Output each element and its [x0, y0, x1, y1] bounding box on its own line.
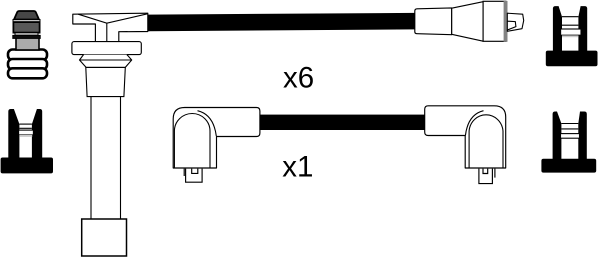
x6 lead: right connector body [483, 1, 507, 42]
spark plug terminal nut: gray cylinder [16, 38, 39, 51]
spark plug terminal nut (top-left): ribbed base [8, 50, 47, 79]
label x1 [282, 151, 313, 184]
x6 lead: right connector sleeve [415, 8, 452, 35]
x6 lead: boot long shaft [91, 96, 121, 219]
inverted-T connector bottom-left: interior lines [19, 124, 34, 137]
x1 lead: left boot terminal tab [184, 169, 202, 183]
x6 lead: distributor T-boot top piece [73, 13, 148, 41]
x6 lead: boot neck bevel [80, 55, 132, 68]
svg-text:x6: x6 [283, 61, 314, 94]
inverted-T connector top-right: base [546, 51, 598, 67]
x1 lead: right boot terminal tab [479, 169, 495, 184]
inverted-T connector bottom-right: interior lines [561, 124, 580, 139]
x1 lead: right elbow boot body [425, 106, 506, 168]
label x6 [283, 61, 314, 94]
x6 lead: boot upper cylinder [86, 67, 126, 96]
x6 lead: boot bottom tip [82, 219, 127, 256]
x6 lead: black cable (long, top) [148, 13, 415, 31]
inverted-T connector bottom-right: base [541, 159, 596, 173]
x6 lead: boot collar [72, 42, 141, 55]
x6 lead: right connector terminal clip [507, 13, 523, 31]
inverted-T connector top-right: interior lines [561, 17, 581, 38]
x1 lead: black cable (bottom) [256, 115, 428, 130]
inverted-T connector top-right: columns [553, 6, 587, 52]
inverted-T connector bottom-right: columns [553, 112, 587, 160]
spark plug terminal nut: dark cap stack [13, 11, 40, 38]
x1 lead: left elbow boot body [173, 108, 260, 169]
svg-text:x1: x1 [282, 151, 313, 184]
x6 lead: right connector flared boot [452, 2, 483, 42]
inverted-T connector bottom-left: base [1, 158, 53, 174]
inverted-T connector bottom-left: columns [8, 109, 42, 159]
